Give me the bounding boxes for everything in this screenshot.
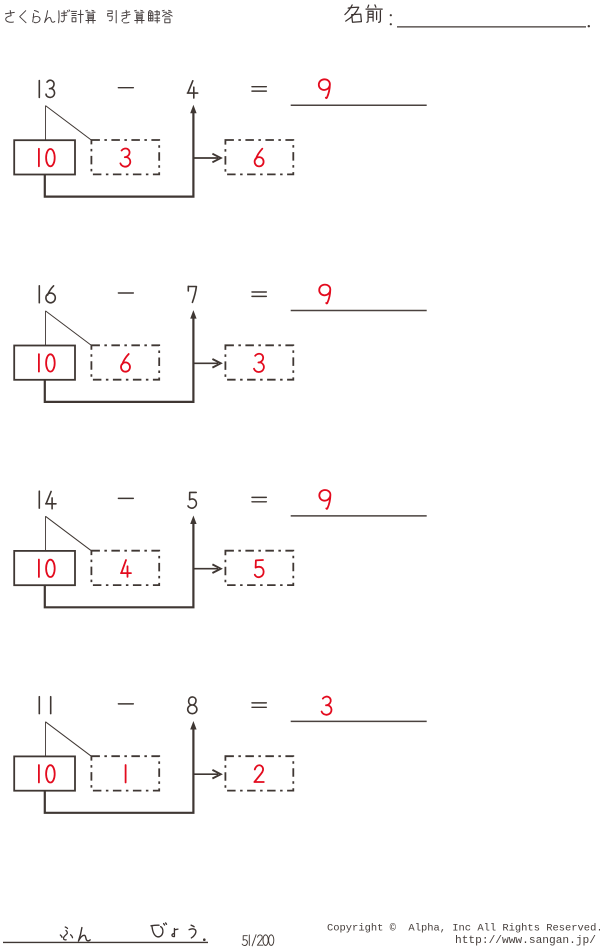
problem 4 part box value 1 (red) xyxy=(125,765,127,783)
problem 4 ten box label 10 (red) xyxy=(39,765,55,783)
problem 2 right arrow to result box xyxy=(193,362,218,364)
name colon xyxy=(390,14,392,16)
svg-text:Copyright © Alpha, Inc All Ri: Copyright © Alpha, Inc All Rights Reserv… xyxy=(327,923,600,935)
problem 2 up arrowhead xyxy=(190,310,196,319)
problem 2 answer underline xyxy=(291,310,427,312)
problem 1 part box value 3 (red) xyxy=(120,148,130,166)
title char 算 xyxy=(86,10,96,23)
problem 3 equals sign xyxy=(252,497,266,501)
problem 2 ten box label 10 (red) xyxy=(39,354,55,372)
problem 3 answer 9 (red) xyxy=(319,490,330,509)
problem 4 split line to ten box xyxy=(45,722,47,756)
problem 4 answer 3 (red) xyxy=(322,697,332,715)
problem 4 up arrowhead xyxy=(190,721,196,730)
problem 3 minus sign xyxy=(118,497,133,499)
page number 51/200 xyxy=(242,934,274,946)
problem 2 split line to ten box xyxy=(45,311,47,345)
problem 1 wire from ten box to subtrahend xyxy=(45,110,194,197)
problem 2 wire from ten box to subtrahend xyxy=(45,315,194,402)
problem 1 equals sign xyxy=(252,87,266,91)
problem 3 result box value 5 (red) xyxy=(255,560,264,577)
problem 3 result box (dashed) xyxy=(225,551,293,585)
problem 3 minuend 14 xyxy=(39,491,56,509)
problem 3 split line to ten box xyxy=(45,516,47,550)
problem 1 right arrowhead xyxy=(212,154,220,163)
problem 3 split line to part box xyxy=(46,516,92,551)
problem 4 minuend 11 xyxy=(39,697,50,714)
title char く xyxy=(20,11,26,23)
name underline period xyxy=(588,25,590,27)
problem 4 ten box xyxy=(14,756,75,790)
svg-text:http://www.sangan.jp/: http://www.sangan.jp/ xyxy=(455,935,596,947)
name underline xyxy=(397,26,586,28)
problem 3 ten box xyxy=(14,551,75,585)
title char き xyxy=(122,10,130,23)
problem 1 answer 9 (red) xyxy=(319,79,330,98)
problem 1 split line to ten box xyxy=(45,106,47,140)
problem 2 minuend 16 xyxy=(39,286,55,303)
problem 3 part box value 4 (red) xyxy=(121,560,131,577)
problem 1 result box value 6 (red) xyxy=(255,149,264,167)
title char ら xyxy=(33,11,40,23)
title char 引 xyxy=(108,11,117,23)
problem 2 split line to part box xyxy=(46,311,92,346)
footer period xyxy=(203,938,206,941)
problem 3 right arrow to result box xyxy=(193,568,218,570)
problem 1 ten box label 10 (red) xyxy=(39,149,55,167)
problem 3 wire from ten box to subtrahend xyxy=(45,521,194,608)
problem 3 right arrowhead xyxy=(212,564,220,573)
problem 1 split line to part box xyxy=(46,106,92,141)
problem 4 equals sign xyxy=(252,703,266,707)
problem 4 result box value 2 (red) xyxy=(254,765,263,782)
problem 1 part box (dashed) xyxy=(91,140,159,174)
footer time underline xyxy=(3,941,208,943)
problem 3 ten box label 10 (red) xyxy=(39,560,55,578)
title char さ xyxy=(6,11,15,23)
footer byou (seconds) xyxy=(151,923,167,937)
problem 2 answer 9 (red) xyxy=(319,285,330,304)
problem 2 part box value 6 (red) xyxy=(121,354,130,372)
problem 4 answer underline xyxy=(291,720,427,722)
footer fun (minutes) xyxy=(60,923,196,941)
problem 2 result box value 3 (red) xyxy=(254,354,264,372)
title char 解 xyxy=(149,11,160,23)
problem 2 subtrahend 7 xyxy=(188,286,196,302)
title char ぼ xyxy=(59,10,70,23)
problem 2 equals sign xyxy=(252,292,266,296)
problem 3 part box (dashed) xyxy=(91,551,159,585)
problem 3 up arrowhead xyxy=(190,516,196,525)
problem 2 result box (dashed) xyxy=(225,345,293,379)
problem 1 right arrow to result box xyxy=(193,157,218,159)
problem 2 ten box xyxy=(14,346,75,380)
title char 計 xyxy=(71,10,83,22)
problem 4 right arrowhead xyxy=(212,770,220,779)
problem 2 part box (dashed) xyxy=(91,345,159,379)
problem 1 result box (dashed) xyxy=(225,140,293,174)
problem 1 subtrahend 4 xyxy=(187,81,197,98)
title: sakuranbo keisan hikizan kaitou xyxy=(6,10,173,23)
problem 4 right arrow to result box xyxy=(193,773,218,775)
problem 4 subtrahend 8 xyxy=(188,697,197,714)
title char ん xyxy=(45,11,55,23)
problem 1 minus sign xyxy=(118,87,133,89)
problem 3 answer underline xyxy=(291,515,427,517)
problem 4 minus sign xyxy=(118,703,133,705)
title char 答 xyxy=(162,10,172,22)
problem 4 result box (dashed) xyxy=(225,756,293,790)
name label 名前 xyxy=(345,5,382,23)
problem 1 up arrowhead xyxy=(190,105,196,114)
problem 2 right arrowhead xyxy=(212,359,220,368)
problem 1 minuend 13 xyxy=(39,80,54,97)
problem 4 part box (dashed) xyxy=(91,756,159,790)
problem 3 subtrahend 5 xyxy=(188,492,196,508)
problem 4 split line to part box xyxy=(46,722,92,757)
problem 1 answer underline xyxy=(291,104,427,106)
title char 算 xyxy=(135,10,145,23)
problem 4 wire from ten box to subtrahend xyxy=(45,726,194,813)
problem 2 minus sign xyxy=(118,292,133,294)
problem 1 ten box xyxy=(14,140,75,174)
